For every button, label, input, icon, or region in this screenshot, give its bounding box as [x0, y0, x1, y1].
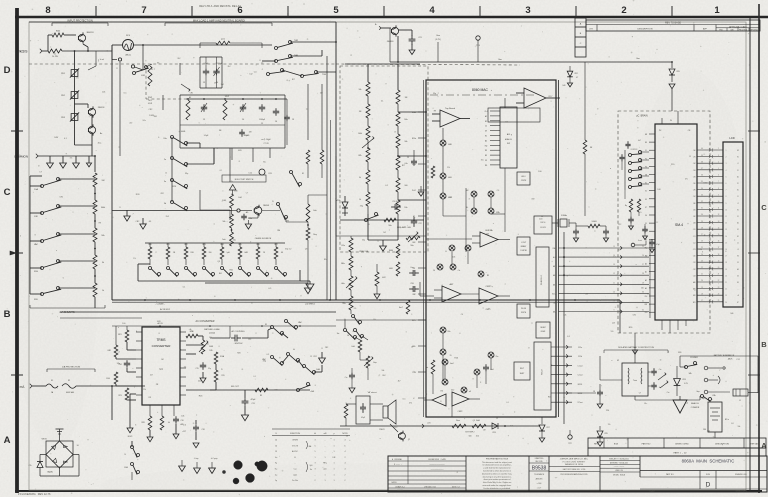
ground G12 [374, 286, 380, 299]
common ground G3 [73, 156, 80, 168]
svg-text:C7 C8: C7 C8 [263, 143, 268, 145]
svg-text:C3: C3 [203, 119, 205, 121]
svg-text:- CLEAN -: - CLEAN - [155, 303, 164, 306]
resistor R4 divider [93, 200, 105, 214]
svg-text:1: 1 [714, 5, 720, 16]
svg-text:8060A MAIN SCHEMATIC: 8060A MAIN SCHEMATIC [682, 459, 735, 464]
node S chassis ground [56, 429, 64, 441]
cap grid frame [180, 95, 285, 148]
svg-text:C7: C7 [394, 131, 396, 133]
svg-text:5: 5 [314, 445, 315, 447]
svg-text:10: 10 [613, 291, 615, 293]
jack contact J3 [704, 390, 730, 394]
svg-text:5Ωa: 5Ωa [410, 245, 413, 247]
svg-text:CωB: CωB [351, 346, 354, 348]
common ground G2 [60, 156, 67, 168]
capacitor C38 [239, 129, 249, 137]
svg-text:B2: B2 [737, 236, 739, 238]
svg-text:R9: R9 [149, 397, 151, 399]
svg-text:SIGNATURES / DATE: SIGNATURES / DATE [428, 458, 446, 461]
svg-text:K2: K2 [645, 191, 647, 193]
svg-text:S1D: S1D [34, 299, 39, 301]
svg-text:6: 6 [460, 333, 461, 335]
MAC internal wire C [452, 252, 468, 264]
circle U13 [259, 169, 272, 175]
op-amp U8 [516, 88, 560, 108]
svg-text:REV LTR A AND REV/STA RE1 A2: REV LTR A AND REV/STA RE1 A2 [199, 4, 241, 8]
svg-text:3: 3 [480, 382, 481, 384]
resistor R61 [320, 150, 324, 178]
svg-text:S1c: S1c [647, 293, 650, 295]
svg-text:37: 37 [701, 168, 703, 170]
guard dashed line [29, 64, 520, 65]
svg-text:0.1: 0.1 [183, 286, 186, 288]
svg-text:0.5: 0.5 [267, 354, 270, 356]
kohm out line [210, 386, 310, 397]
svg-text:50%: 50% [148, 100, 152, 102]
resistor R42 [431, 166, 435, 178]
switch VAC3 [262, 356, 283, 366]
divider chain B R36-R41 [396, 90, 408, 222]
plug body [733, 389, 754, 402]
mirror C6b [465, 245, 471, 251]
svg-text:B2k: B2k [358, 155, 361, 157]
svg-text:C18: C18 [201, 429, 204, 431]
svg-text:C2: C2 [485, 126, 487, 128]
svg-text:A6T: A6T [449, 283, 454, 286]
svg-text:PART NO: PART NO [642, 443, 651, 446]
svg-text:AC/DC: AC/DC [292, 450, 299, 453]
capacitor C32 [642, 224, 648, 240]
SM4 bottom pins [662, 320, 686, 333]
svg-text:F2: F2 [68, 380, 70, 382]
svg-text:0.2μF: 0.2μF [361, 417, 365, 419]
ground arrow bottom row [300, 281, 314, 290]
svg-text:29: 29 [701, 221, 703, 223]
svg-text:CD0: CD0 [693, 256, 696, 258]
svg-text:AC IN 8052: AC IN 8052 [160, 308, 170, 311]
svg-text:OHMS SOURCE: OHMS SOURCE [255, 238, 272, 240]
MAC internal wire B [491, 168, 505, 232]
battery switch S1B [696, 391, 715, 402]
svg-text:S1c: S1c [481, 159, 484, 161]
wire upper clamp branch [48, 35, 76, 51]
svg-text:DRIVE: DRIVE [541, 331, 546, 333]
svg-text:5: 5 [333, 5, 339, 16]
svg-text:± 1/2°: ± 1/2° [537, 488, 542, 490]
svg-text:ρ: ρ [333, 433, 334, 435]
fuse F3 [62, 380, 76, 394]
resistor R50 [389, 262, 399, 276]
svg-text:F1: F1 [265, 324, 267, 326]
svg-text:CB2: CB2 [693, 216, 696, 218]
switch TDB [282, 70, 327, 78]
ohm source rail [112, 210, 232, 212]
svg-text:H6a: H6a [341, 283, 344, 285]
svg-text:C2 out: C2 out [578, 374, 584, 377]
battery BT1 [701, 398, 729, 432]
svg-text:FACTORY PAGE NO. 1-786: FACTORY PAGE NO. 1-786 [563, 468, 586, 471]
resistor R6 divider [93, 255, 104, 269]
trimmer capacitor C1 [203, 63, 209, 84]
svg-text:8: 8 [45, 5, 50, 16]
svg-text:J1: J1 [739, 400, 741, 402]
hi-lo control box [517, 172, 530, 185]
svg-text:R41: R41 [548, 396, 551, 398]
svg-text:47k: 47k [174, 434, 177, 436]
zone tick marks top [96, 6, 672, 17]
power arrow A1 [179, 460, 186, 471]
battery eliminator label [714, 354, 735, 361]
svg-text:5%: 5% [447, 167, 450, 169]
svg-text:CD3: CD3 [693, 275, 696, 277]
divider tap 3 [398, 199, 426, 201]
time align box [356, 396, 370, 424]
svg-text:2k2: 2k2 [198, 381, 201, 383]
svg-text:F2: F2 [737, 216, 739, 218]
uC wires [622, 162, 639, 216]
svg-text:WASHINGTON 98206: WASHINGTON 98206 [565, 463, 583, 466]
svg-text:E2: E2 [485, 136, 487, 138]
svg-text:VSS: VSS [645, 312, 648, 314]
svg-text:9M: 9M [703, 429, 706, 431]
guard dashed corner [146, 65, 186, 99]
solder blob 2 [255, 461, 267, 471]
svg-text:900k: 900k [101, 207, 105, 209]
svg-text:5%: 5% [157, 62, 160, 64]
mirror A2a [442, 359, 454, 365]
POR resistor R58 [637, 199, 640, 212]
ground G13 [349, 380, 355, 393]
svg-text:0.1: 0.1 [381, 101, 384, 103]
divider bottom [368, 214, 398, 251]
current mirror A11 [440, 179, 452, 199]
svg-text:G1: G1 [149, 221, 152, 223]
svg-text:SCALE: SCALE [649, 490, 655, 493]
svg-text:F1: F1 [51, 380, 53, 382]
svg-text:31: 31 [642, 300, 644, 302]
capacitor C3 trimmer [201, 103, 207, 121]
svg-text:13: 13 [275, 451, 277, 453]
switch SD [272, 201, 287, 220]
fuse F2 2A [46, 380, 58, 394]
test switch label [222, 175, 266, 182]
svg-text:4k7: 4k7 [150, 374, 153, 376]
svg-text:5Ωa: 5Ωa [388, 225, 391, 227]
AD switch box [500, 107, 517, 168]
guard dash-dot line [430, 94, 534, 96]
wire R14 down [205, 240, 312, 294]
svg-text:F3: F3 [737, 262, 739, 264]
capacitor C28 [603, 226, 609, 242]
ac converter label [196, 320, 215, 323]
svg-text:1k: 1k [102, 290, 104, 292]
ohms source label [255, 238, 272, 240]
svg-text:C9: C9 [407, 157, 409, 159]
svg-text:C13: C13 [251, 403, 254, 405]
svg-text:47k: 47k [214, 83, 217, 85]
resistor R44 [341, 252, 353, 270]
svg-text:2k2: 2k2 [383, 232, 386, 234]
svg-text:2: 2 [621, 5, 626, 16]
svg-text:JACK: JACK [728, 358, 734, 361]
svg-text:C1: C1 [737, 196, 739, 198]
rail y312 [60, 308, 336, 312]
svg-text:BCΩa: BCΩa [412, 112, 416, 114]
svg-text:18: 18 [701, 293, 703, 295]
op-amp CMP2 [452, 392, 480, 413]
divider chain A R30-R35 [358, 82, 370, 214]
svg-text:22: 22 [701, 267, 703, 269]
svg-text:14: 14 [275, 440, 277, 442]
svg-text:Q7: Q7 [408, 439, 410, 441]
switch VAC2 [285, 320, 303, 330]
resistor R59 [426, 360, 435, 374]
svg-text:C7: C7 [261, 62, 263, 64]
svg-text:1/4W: 1/4W [54, 137, 58, 139]
transformer T1 [617, 360, 648, 396]
svg-text:CR7: CR7 [546, 427, 549, 429]
interface vertical bus [563, 232, 565, 424]
clamp network wires [75, 134, 93, 156]
trimmer R45 [341, 270, 357, 290]
svg-text:REF DATE: REF DATE [751, 443, 761, 446]
resistor R52 100k [576, 221, 606, 228]
svg-text:Bo: Bo [100, 133, 102, 135]
svg-text:6: 6 [98, 61, 99, 63]
AD switch pins [485, 111, 500, 167]
wire top bus [29, 21, 336, 23]
svg-text:1: 1 [333, 463, 334, 465]
svg-text:A ORIGINAL: A ORIGINAL [392, 458, 402, 461]
resistor R22 [106, 372, 136, 386]
mirror A2d [474, 369, 480, 388]
trimmer R48 [406, 232, 420, 247]
svg-text:+5 ωρ: +5 ωρ [194, 458, 199, 460]
svg-text:34: 34 [701, 188, 703, 190]
svg-text:B2: B2 [485, 121, 487, 123]
svg-text:RCΩa: RCΩa [412, 138, 416, 140]
svg-text:47k: 47k [409, 402, 412, 404]
switch J [262, 69, 285, 76]
op-amp feedback box [488, 98, 540, 122]
svg-text:3: 3 [314, 469, 315, 471]
svg-text:100kΩ: 100kΩ [592, 221, 598, 223]
guard V switch [116, 65, 143, 70]
common input terminal [14, 154, 95, 159]
title block proprietary notice [482, 456, 529, 492]
svg-text:DESCRIPTION: DESCRIPTION [638, 29, 653, 31]
svg-text:CH2: CH2 [693, 163, 696, 165]
svg-text:5%: 5% [354, 308, 357, 310]
svg-text:R41: R41 [154, 116, 157, 118]
svg-text:C: C [761, 203, 767, 212]
svg-text:21: 21 [701, 274, 703, 276]
ohm ref wires [352, 337, 368, 380]
svg-text:R23: R23 [118, 395, 121, 397]
svg-text:10k: 10k [585, 294, 588, 296]
mirror C6a [445, 245, 455, 253]
svg-text:C1 out: C1 out [578, 364, 584, 367]
svg-text:5%: 5% [685, 178, 688, 180]
svg-text:CMP1: CMP1 [486, 309, 491, 311]
svg-text:LCD: LCD [729, 136, 734, 140]
svg-text:CL4: CL4 [485, 111, 488, 113]
svg-text:12: 12 [165, 172, 167, 174]
svg-text:CR2: CR2 [313, 356, 317, 358]
op-amp A1 buffer [432, 107, 470, 127]
pulse width box [517, 304, 530, 318]
svg-text:4k7: 4k7 [398, 381, 401, 383]
svg-text:1: 1 [324, 480, 325, 482]
mirror C6c [433, 264, 443, 272]
svg-text:CONTR: CONTR [521, 180, 527, 182]
wire trms to macro [210, 326, 230, 338]
speaker wires [346, 391, 383, 420]
svg-text:C3: C3 [203, 82, 205, 84]
isolated battery label [604, 346, 668, 353]
svg-text:BCD1: BCD1 [578, 384, 583, 386]
resistor R56 [344, 404, 348, 426]
svg-text:# FLUKE/DWG REV 12-76: # FLUKE/DWG REV 12-76 [18, 492, 51, 496]
wire divider node [94, 214, 96, 228]
svg-text:L1 OUT: L1 OUT [521, 242, 526, 244]
svg-text:TRMS: TRMS [156, 338, 165, 342]
svg-text:10k: 10k [359, 89, 362, 91]
capacitor C6 [273, 108, 279, 123]
svg-text:U2: U2 [617, 360, 619, 362]
jack contact J1 [704, 366, 725, 370]
mA protection bracket [47, 366, 95, 373]
svg-text:33: 33 [701, 194, 703, 196]
svg-text:1: 1 [333, 445, 334, 447]
svg-text:470pF: 470pF [250, 399, 256, 401]
svg-text:15: 15 [613, 246, 615, 248]
svg-text:R9: R9 [434, 111, 436, 113]
svg-text:BP: BP [737, 150, 739, 152]
power arrow +5VDC [127, 394, 136, 438]
svg-text:R6x: R6x [448, 331, 451, 333]
svg-text:mA PROTECTION: mA PROTECTION [62, 366, 81, 369]
svg-text:220: 220 [641, 287, 644, 289]
svg-text:33p: 33p [233, 239, 236, 241]
svg-text:6ωk: 6ωk [313, 210, 316, 212]
svg-text:CH6: CH6 [693, 190, 696, 192]
svg-text:B9538: B9538 [532, 466, 547, 472]
zener CR8 [597, 426, 608, 446]
svg-text:2: 2 [344, 457, 345, 459]
result shift box [514, 362, 530, 380]
extra junction wires [200, 156, 336, 236]
svg-text:9M: 9M [221, 84, 224, 86]
svg-text:33p: 33p [185, 173, 188, 175]
svg-text:8: 8 [511, 134, 512, 136]
mirror R5c [478, 271, 489, 277]
svg-text:R15: R15 [221, 375, 224, 377]
mA input terminal [20, 384, 46, 389]
svg-text:10k: 10k [563, 314, 566, 316]
svg-text:AC CONVERTER: AC CONVERTER [196, 320, 215, 323]
svg-text:R9: R9 [287, 221, 289, 223]
svg-text:1/4W: 1/4W [238, 150, 242, 152]
svg-text:8: 8 [473, 379, 474, 381]
svg-text:R41: R41 [229, 270, 233, 272]
svg-text:VR3: VR3 [682, 379, 686, 381]
svg-text:CC1: CC1 [693, 236, 696, 238]
node rail360 [336, 235, 426, 237]
analog common ground [673, 396, 700, 413]
cap grid bus dots [186, 98, 287, 100]
svg-text:--------- ---------: --------- --------- [614, 466, 625, 468]
db ref label [465, 432, 474, 438]
svg-text:CH5: CH5 [693, 183, 696, 185]
capacitor C113a [241, 211, 252, 220]
solder blob 3 [246, 474, 255, 483]
svg-text:Further distribution is prohib: Further distribution is prohibited. [483, 487, 510, 490]
SM4 top pins [662, 111, 678, 124]
TRMS converter U4 box [142, 327, 180, 405]
cap box wires [200, 57, 222, 88]
svg-text:D1: D1 [645, 223, 647, 225]
svg-text:C4: C4 [461, 314, 463, 316]
power arrow A2 [194, 458, 201, 473]
revision letter strip [575, 18, 586, 57]
switch THB [262, 55, 299, 63]
svg-text:47pF: 47pF [656, 244, 660, 246]
svg-text:23: 23 [701, 260, 703, 262]
wire chain to caps [186, 143, 214, 164]
trimmer arrow A [362, 137, 374, 149]
arrow V down [319, 348, 326, 363]
current mirror pair 30 [466, 207, 500, 214]
svg-text:D2: D2 [737, 229, 739, 231]
svg-text:CH7: CH7 [693, 196, 696, 198]
svg-text:1: 1 [333, 469, 334, 471]
svg-text:38: 38 [701, 161, 703, 163]
svg-text:y and shall not be reproduced: y and shall not be reproduced or [483, 467, 510, 470]
transistor Q4 2N4360 [375, 24, 399, 43]
svg-text:This document and the subject: This document and the subject mat- [482, 461, 512, 464]
svg-text:500: 500 [469, 436, 472, 438]
mirror wires [443, 197, 491, 216]
svg-text:12: 12 [368, 92, 370, 94]
svg-text:+C17: +C17 [182, 431, 186, 433]
svg-text:1%: 1% [133, 258, 136, 260]
svg-text:2ρΩ: 2ρΩ [293, 474, 297, 476]
svg-text:ter disclosed herein are propr: ter disclosed herein are proprietar- [483, 464, 512, 467]
svg-text:10k: 10k [181, 415, 184, 417]
svg-text:2k2: 2k2 [228, 66, 231, 68]
svg-text:1100: 1100 [106, 378, 110, 380]
svg-text:5%: 5% [143, 389, 146, 391]
svg-text:U13: U13 [268, 173, 271, 175]
bottom row bus [138, 264, 300, 281]
svg-text:CLK: CLK [645, 296, 648, 298]
svg-text:R26: R26 [699, 249, 702, 251]
svg-text:P.O. BOX C9090 EVERETT: P.O. BOX C9090 EVERETT [563, 461, 587, 463]
svg-text:CR3: CR3 [492, 432, 495, 434]
svg-text:KΩ OUT: KΩ OUT [231, 386, 240, 388]
svg-text:2: 2 [314, 480, 315, 482]
mirror A2c [461, 387, 471, 393]
title block number B9538 [529, 456, 549, 492]
svg-text:VAC: VAC [34, 243, 39, 246]
svg-text:S1c: S1c [263, 161, 266, 163]
svg-text:CR2: CR2 [325, 347, 328, 349]
transistor Q6 [390, 424, 410, 441]
capacitor C5 1100pF [259, 104, 266, 125]
svg-text:RSLT: RSLT [520, 368, 524, 370]
